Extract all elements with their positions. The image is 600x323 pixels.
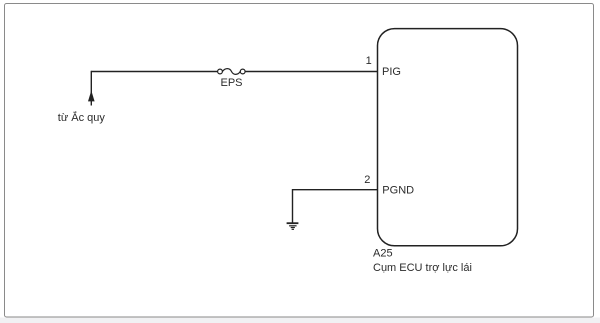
fuse EPS: element S-curve: [222, 69, 240, 75]
wire: vertical drop from battery corner: [90, 71, 92, 106]
wire: pin 2 vertical drop to ground: [292, 189, 294, 223]
svg-text:1: 1: [366, 55, 372, 67]
gray strip below frame: [0, 318, 600, 323]
svg-text:PIG: PIG: [382, 66, 401, 78]
wire: battery feed horizontal left segment: [91, 71, 217, 73]
svg-text:EPS: EPS: [220, 77, 242, 89]
svg-text:Cụm ECU trợ lực lái: Cụm ECU trợ lực lái: [373, 262, 472, 274]
fuse EPS: right terminal circle: [240, 69, 245, 74]
svg-text:A25: A25: [373, 248, 393, 260]
svg-text:PGND: PGND: [382, 184, 414, 196]
arrowhead from battery (pointing up): [88, 91, 95, 102]
ground symbol: [287, 223, 299, 229]
ECU box A25: [378, 29, 518, 246]
svg-text:2: 2: [364, 174, 370, 186]
wire: pin 2 horizontal: [293, 189, 378, 191]
fuse EPS: left terminal circle: [218, 69, 223, 74]
svg-text:từ Ắc quy: từ Ắc quy: [58, 111, 106, 124]
wire: fuse to pin 1 horizontal segment: [245, 71, 377, 73]
